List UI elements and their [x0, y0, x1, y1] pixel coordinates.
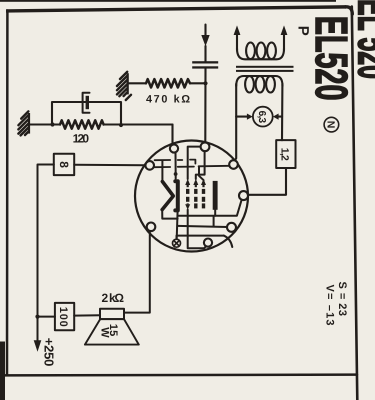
capacitor (bracket plate) — [83, 93, 90, 113]
wire dot to box100 — [38, 316, 55, 318]
node dot — [203, 81, 207, 85]
internal dashed connection line lower (to pin6) — [155, 166, 230, 167]
wire secondary right lead down — [281, 84, 283, 140]
svg-text:P: P — [294, 26, 311, 36]
wire row B to pin8 — [178, 226, 228, 227]
pin 3 — [145, 161, 154, 170]
pin 6 — [229, 160, 238, 169]
wire heater bottom lead — [162, 210, 177, 219]
wire anode stem — [214, 210, 216, 216]
voltmeter 6,3 circle — [253, 107, 273, 127]
arrow into 6,3 from right — [278, 116, 282, 118]
pin 9 — [204, 239, 212, 247]
wire from 1,2 box to tube anode pin — [248, 168, 286, 195]
wire g2 jog up to pin2 bottom — [196, 151, 205, 179]
wire — [204, 46, 206, 61]
svg-text:V= –13: V= –13 — [324, 285, 336, 326]
grid g2 (dashed with arrow) — [193, 179, 198, 209]
arrow +250 — [34, 340, 42, 352]
svg-text:S = 23: S = 23 — [336, 282, 348, 317]
box 1,2 — [276, 140, 295, 168]
pin X (no connection, circle-X) — [173, 239, 181, 247]
pin 7 — [239, 191, 248, 200]
svg-text:+250: +250 — [42, 338, 57, 367]
wire g1 up and to pin2 — [188, 147, 201, 179]
wire — [204, 69, 206, 143]
svg-text:6,3: 6,3 — [256, 111, 267, 124]
wire hook stub bottom right — [224, 236, 233, 247]
svg-text:EL 520: EL 520 — [349, 0, 375, 79]
svg-text:100: 100 — [57, 307, 69, 327]
capacitor C (decoupling) — [192, 61, 218, 63]
anode bar — [213, 181, 218, 210]
wire row A anode to pin7 — [178, 200, 242, 216]
transformer primary arrow right — [283, 35, 285, 51]
wire row C from X pin — [177, 236, 224, 239]
grid g3 (dashed with arrow) — [201, 179, 206, 209]
wire box8 left and long drop — [38, 165, 54, 341]
node dot — [50, 122, 54, 126]
speaker cone 15 W — [85, 319, 139, 345]
wire g1 bottom lead to pin9 — [188, 210, 207, 249]
circled N mark — [324, 117, 339, 132]
heater filament (chevron) — [162, 182, 173, 210]
pin 2 — [201, 142, 210, 151]
pin 4 — [147, 223, 156, 232]
box 8 (input) — [54, 154, 74, 175]
wire secondary left lead down to heater pin — [235, 84, 237, 161]
svg-text:N: N — [325, 121, 337, 129]
svg-text:W: W — [99, 327, 111, 338]
chassis terminal (hatched) left — [18, 111, 30, 135]
transformer primary arrow left — [236, 35, 238, 51]
pin 8 — [227, 223, 236, 232]
wire from RC to tube pin — [171, 125, 173, 145]
transformer core — [236, 66, 294, 68]
cathode bar — [175, 181, 178, 210]
resistor 470k — [146, 79, 190, 87]
chassis terminal (hatched) top — [117, 72, 131, 100]
supply arrow (B+) — [204, 25, 206, 36]
node dot — [119, 123, 123, 127]
wire — [190, 82, 206, 84]
wire g3 stub to internal line — [199, 166, 204, 180]
PAGE FURNITURE (frame) — [0, 0, 336, 2]
transformer secondary winding — [236, 76, 282, 86]
wire box100 to speaker box — [74, 314, 100, 316]
grid g1 (dashed with arrows) — [185, 179, 190, 210]
resistor 120 — [60, 120, 104, 128]
pin 1 — [170, 144, 178, 152]
wire cathode tail down to X pin — [176, 211, 179, 239]
transformer primary winding — [237, 49, 284, 60]
wire — [129, 82, 146, 84]
speaker transformer box 2k — [100, 309, 124, 319]
internal dashed connection line upper — [155, 160, 196, 164]
tube envelope U1 — [135, 141, 248, 252]
wire riser left of RC — [52, 102, 86, 125]
node dot on stem — [174, 172, 178, 176]
svg-text:1,2: 1,2 — [279, 148, 291, 161]
wire — [30, 123, 60, 125]
wire — [104, 123, 173, 125]
node dot — [35, 315, 39, 319]
capacitor (bar plate) — [86, 96, 89, 109]
wire box8 to pin3 — [74, 164, 145, 167]
wire pin1 stem — [175, 153, 177, 179]
svg-text:2 kΩ: 2 kΩ — [102, 291, 125, 305]
svg-text:120: 120 — [73, 131, 90, 145]
wire heater top riser — [161, 161, 163, 181]
wire — [30, 123, 52, 125]
wire — [89, 102, 121, 125]
wire stub row B up — [213, 216, 215, 226]
wire speaker box right up to pin4 — [124, 231, 150, 313]
svg-text:8: 8 — [57, 161, 71, 168]
arrow into 6,3 from left — [236, 116, 247, 118]
box 100 — [55, 303, 74, 330]
